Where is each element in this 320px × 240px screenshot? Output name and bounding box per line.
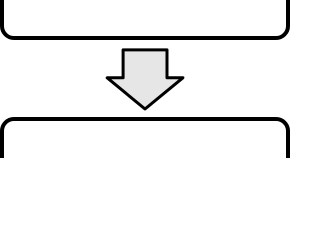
flowchart connector: block arrow pointing down <box>107 50 183 109</box>
flowchart box bottom (rounded rectangle, cut off by bottom edge) <box>2 119 288 189</box>
flowchart box top (rounded rectangle, cut off by top edge) <box>2 0 288 38</box>
